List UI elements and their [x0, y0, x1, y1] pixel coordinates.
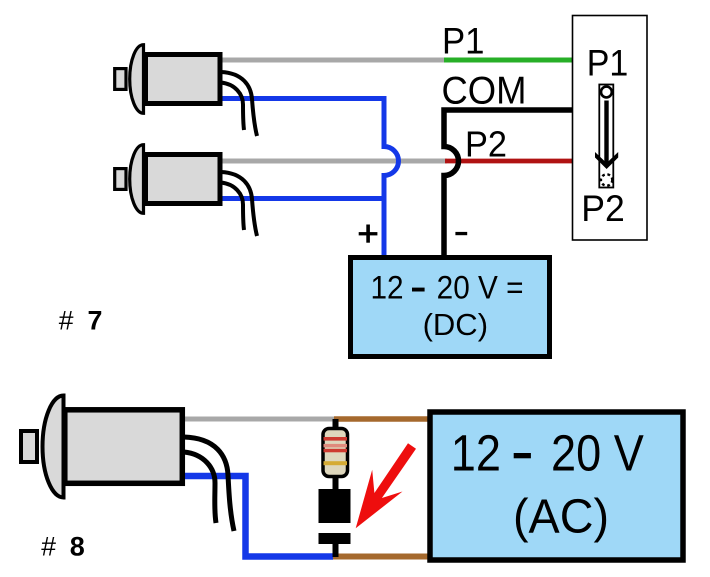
motor M3: [21, 396, 234, 532]
switch knob circle: [601, 87, 612, 98]
resistor R1 lead top: [333, 419, 339, 429]
label plus: [359, 225, 378, 243]
switch slider track: [599, 85, 613, 188]
wire black COM with hop over junction: [444, 110, 573, 257]
svg-text:#: #: [41, 532, 56, 562]
resistor R1: [323, 429, 348, 477]
svg-text:P2: P2: [581, 188, 625, 229]
wire blue M2 joining vertical: [222, 196, 386, 201]
wire green P1: [444, 58, 573, 63]
DC dash: [412, 288, 425, 292]
switch box U1: [573, 16, 648, 241]
diode D1: [319, 489, 351, 544]
DC supply box: [351, 258, 550, 357]
motor M1: [115, 45, 257, 136]
label minus: [455, 232, 467, 235]
svg-text:P1: P1: [442, 20, 485, 62]
wire red P2: [445, 159, 573, 164]
diode D1 lead bottom: [333, 544, 339, 557]
svg-text:(AC): (AC): [513, 491, 609, 544]
AC dash: [514, 453, 531, 458]
wire gray motor M3: [185, 417, 336, 422]
svg-text:COM: COM: [442, 70, 527, 113]
red arrow pointing at diode: [356, 443, 416, 528]
switch arrow shaft: [604, 101, 608, 165]
wire gray motor M1: [222, 58, 445, 63]
switch arrow head: [595, 152, 618, 169]
switch dashed circle: [601, 174, 612, 185]
svg-text:7: 7: [88, 305, 103, 335]
wire blue M3: [185, 476, 333, 557]
wire gray motor M2: [222, 159, 447, 164]
svg-text:P2: P2: [465, 124, 507, 165]
wire brown bottom: [333, 554, 430, 560]
svg-text:P1: P1: [587, 42, 629, 83]
svg-text:12 – 20 V: 12 – 20 V: [451, 425, 644, 482]
svg-text:8: 8: [70, 532, 85, 562]
AC supply box: [430, 412, 683, 560]
wire brown top: [334, 416, 430, 422]
svg-text:(DC): (DC): [423, 307, 488, 342]
diode D1 lead middle: [333, 476, 339, 490]
svg-text:#: #: [59, 305, 74, 335]
motor M2: [115, 145, 257, 236]
wire blue M1 to + with hop over gray wire: [222, 99, 399, 258]
svg-text:12 – 20 V =: 12 – 20 V =: [371, 270, 524, 306]
